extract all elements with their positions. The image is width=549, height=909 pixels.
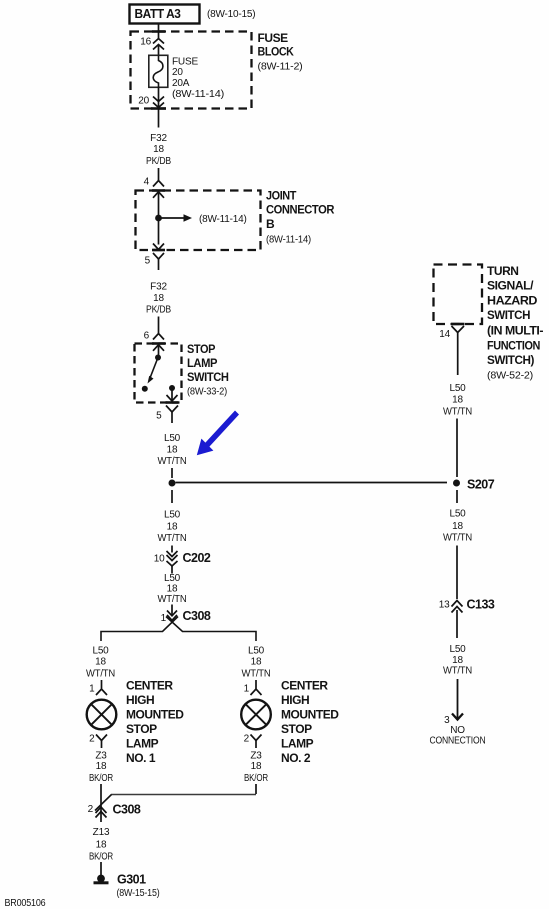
battery feed box BATT A3 [130,5,200,24]
svg-text:SWITCH: SWITCH [487,308,530,322]
svg-text:WT/TN: WT/TN [443,407,472,418]
svg-text:STOP: STOP [187,342,215,356]
svg-text:(8W-52-2): (8W-52-2) [487,370,533,381]
wire splice to S207 [176,482,448,484]
svg-text:MOUNTED: MOUNTED [126,708,184,722]
svg-text:(IN MULTI-: (IN MULTI- [487,324,543,338]
svg-text:WT/TN: WT/TN [158,533,187,544]
wire to joint connector [158,168,160,180]
svg-text:L50: L50 [449,509,466,520]
pin 5 female connector [166,406,178,424]
arrow down to pin 5 [153,244,164,250]
branch arrow to (8W-11-14) [159,214,193,222]
svg-text:BK/OR: BK/OR [244,773,268,784]
svg-text:SWITCH: SWITCH [187,370,229,384]
svg-text:(8W-15-15): (8W-15-15) [117,888,160,899]
wire to C202 [171,546,173,553]
wire to switch contact [158,345,160,357]
lamp no.2 bulb [241,700,271,730]
svg-text:BK/OR: BK/OR [89,773,113,784]
pin 2 connector lamp1 [96,735,107,749]
svg-text:Z3: Z3 [95,751,107,762]
svg-text:2: 2 [88,804,94,815]
svg-text:1: 1 [244,684,250,695]
wire right branch to lamp no.2 [166,617,256,642]
svg-text:L50: L50 [449,644,466,655]
svg-text:CONNECTION: CONNECTION [430,736,486,747]
wire lamp2 down and across [255,784,257,794]
svg-text:(8W-11-14): (8W-11-14) [199,214,247,225]
lamp no.2 label [281,679,339,766]
pin 5 female connector [153,253,164,270]
connector C308 chevrons [167,611,177,621]
wire fuse to pin 20 [158,88,160,128]
svg-text:STOP: STOP [126,722,157,736]
pin 2 connector lamp2 [251,735,262,749]
fuse F32 body [149,55,168,87]
svg-text:18: 18 [452,655,463,666]
svg-text:FUSE: FUSE [258,31,289,45]
svg-text:(8W-11-14): (8W-11-14) [266,235,311,246]
joint connector B dashed box [136,191,261,251]
svg-text:LAMP: LAMP [126,737,159,751]
svg-text:L50: L50 [164,433,181,444]
connector C133 chevrons [452,601,463,613]
wire from BATT A3 into fuse block [158,24,160,39]
svg-text:L50: L50 [92,646,109,657]
ground G301 label [117,873,160,900]
wire to stop lamp switch [158,317,160,334]
switch blade [148,360,158,384]
svg-text:WT/TN: WT/TN [158,456,187,467]
wire below C133 [456,610,458,638]
svg-text:TURN: TURN [487,264,519,278]
svg-text:SIGNAL/: SIGNAL/ [487,279,534,293]
svg-text:20: 20 [172,67,183,78]
svg-text:1: 1 [89,684,95,695]
connector C308 bottom chevrons [96,807,107,818]
wire label Z3 18 BK/OR [89,751,113,785]
svg-text:L50: L50 [248,646,265,657]
svg-text:G301: G301 [117,873,146,887]
wire inside joint connector [158,192,160,245]
fuse block label [258,31,303,73]
wire label L50 18 WT/TN [443,509,472,544]
svg-text:20: 20 [138,96,149,107]
svg-text:BATT A3: BATT A3 [135,6,181,21]
splice S207 dot [453,480,460,487]
svg-text:F32: F32 [150,133,167,144]
wire label L50 18 WT/TN [86,646,115,680]
svg-text:BR005106: BR005106 [5,898,47,909]
svg-text:F32: F32 [150,282,167,293]
svg-text:B: B [266,217,275,231]
svg-text:Z3: Z3 [250,751,262,762]
svg-text:18: 18 [167,584,178,595]
fuse block dashed box [131,32,252,109]
svg-text:18: 18 [167,522,178,533]
wire into lamp2 [255,680,257,689]
svg-text:STOP: STOP [281,722,312,736]
wire label L50 18 WT/TN [242,646,271,680]
wire label F32 18 PK/DB [146,133,171,167]
pin 6 male chevron [153,345,164,351]
svg-text:18: 18 [452,521,463,532]
svg-text:WT/TN: WT/TN [158,594,187,605]
svg-text:(8W-11-2): (8W-11-2) [258,62,303,73]
svg-text:18: 18 [251,657,262,668]
svg-text:CENTER: CENTER [126,679,173,693]
connector C202 symbol [167,551,178,574]
svg-text:18: 18 [153,293,164,304]
blue pointer arrow [197,411,239,456]
lamp no.1 bulb [87,700,117,730]
wire label L50 18 WT/TN [158,573,187,605]
svg-text:FUSE: FUSE [172,57,199,68]
svg-text:13: 13 [439,600,450,611]
no connection label [430,725,486,747]
svg-text:18: 18 [251,761,262,772]
svg-text:CENTER: CENTER [281,679,328,693]
wire label L50 18 WT/TN [443,383,472,418]
svg-text:18: 18 [153,144,164,155]
wire left branch to lamp no.1 [101,617,178,642]
wire to no connection [452,679,463,720]
wire below junction [171,490,173,503]
pin 4 male chevron [153,192,164,198]
svg-text:Z13: Z13 [93,827,110,838]
svg-text:C133: C133 [467,598,495,612]
svg-text:FUNCTION: FUNCTION [487,338,540,352]
svg-text:L50: L50 [164,573,181,584]
svg-text:WT/TN: WT/TN [86,669,115,680]
svg-text:CONNECTOR: CONNECTOR [266,203,335,217]
svg-text:C308: C308 [113,803,141,817]
svg-text:5: 5 [156,411,162,422]
wire and arrow out of switch [167,388,178,401]
svg-text:PK/DB: PK/DB [146,156,171,167]
svg-text:JOINT: JOINT [266,189,297,203]
svg-text:1: 1 [161,613,167,624]
pin plate bars at box-edge crossings [151,32,465,403]
svg-text:(8W-11-14): (8W-11-14) [172,89,224,100]
svg-text:WT/TN: WT/TN [443,666,472,677]
wire below S207 [456,490,458,503]
svg-text:(8W-33-2): (8W-33-2) [187,387,227,398]
svg-text:HIGH: HIGH [126,693,154,707]
pin 14 female connector [452,326,465,375]
ground G301 symbol [94,875,109,883]
svg-text:20A: 20A [172,78,190,89]
svg-text:LAMP: LAMP [187,356,217,370]
svg-text:PK/DB: PK/DB [146,305,171,316]
splice junction dot [169,480,176,487]
wire to ground [100,862,102,875]
svg-text:2: 2 [89,734,95,745]
switch contact top [155,355,161,361]
stop lamp switch label [187,342,229,398]
svg-text:10: 10 [154,554,165,565]
svg-text:5: 5 [145,256,151,267]
wire to C308 [171,605,173,617]
svg-text:18: 18 [167,445,178,456]
svg-text:NO. 1: NO. 1 [126,751,156,765]
svg-text:18: 18 [452,395,463,406]
svg-text:NO. 2: NO. 2 [281,751,311,765]
wire label F32 18 PK/DB [146,282,171,316]
lamp no.1 label [126,679,184,766]
pin 16 chevrons [153,39,164,50]
svg-text:BLOCK: BLOCK [258,44,295,58]
svg-text:6: 6 [144,331,150,342]
svg-text:NO: NO [450,725,465,736]
svg-text:L50: L50 [449,383,466,394]
wire into lamp1 [101,680,103,689]
pin 1 connector lamp1 [96,689,107,695]
svg-text:L50: L50 [164,510,181,521]
wire lamp1 down to C308 [100,784,102,822]
svg-text:4: 4 [144,177,150,188]
turn signal hazard switch label [487,264,543,381]
stop lamp switch dashed box [135,344,182,403]
svg-text:MOUNTED: MOUNTED [281,708,339,722]
pin 6 female connector [153,334,164,340]
svg-text:18: 18 [95,657,106,668]
wire label Z3 18 BK/OR lamp2 [244,751,268,785]
svg-text:BK/OR: BK/OR [89,852,113,863]
svg-text:S207: S207 [467,478,495,492]
svg-text:HIGH: HIGH [281,693,309,707]
wire to S207 [456,419,458,478]
junction dot [155,215,162,222]
switch contact output [169,385,175,391]
pin 1 connector lamp2 [251,689,262,695]
wire label Z13 18 BK/OR [89,827,113,863]
svg-text:14: 14 [439,329,450,340]
wire label L50 18 WT/TN [158,510,187,545]
wire stub to splice [171,468,173,478]
wire chevrons to fuse [158,45,160,57]
svg-text:SWITCH): SWITCH) [487,353,534,367]
svg-text:16: 16 [140,37,151,48]
wire label L50 18 WT/TN [158,433,187,467]
svg-text:(8W-10-15): (8W-10-15) [207,9,255,20]
svg-text:18: 18 [96,761,107,772]
svg-text:C308: C308 [183,609,211,623]
wire label L50 18 WT/TN [443,644,472,677]
pin 20 chevrons [153,97,164,108]
pin 4 female connector [153,181,164,187]
svg-text:2: 2 [244,734,250,745]
svg-text:WT/TN: WT/TN [242,669,271,680]
svg-text:C202: C202 [183,551,211,565]
switch contact bottom-left [142,386,148,392]
svg-text:LAMP: LAMP [281,737,314,751]
turn signal hazard switch dashed box [434,265,483,325]
svg-text:18: 18 [96,840,107,851]
joint connector label [266,189,335,246]
fuse value label [172,57,224,100]
wire to C133 [456,546,458,600]
svg-text:HAZARD: HAZARD [487,293,538,307]
svg-text:WT/TN: WT/TN [443,533,472,544]
